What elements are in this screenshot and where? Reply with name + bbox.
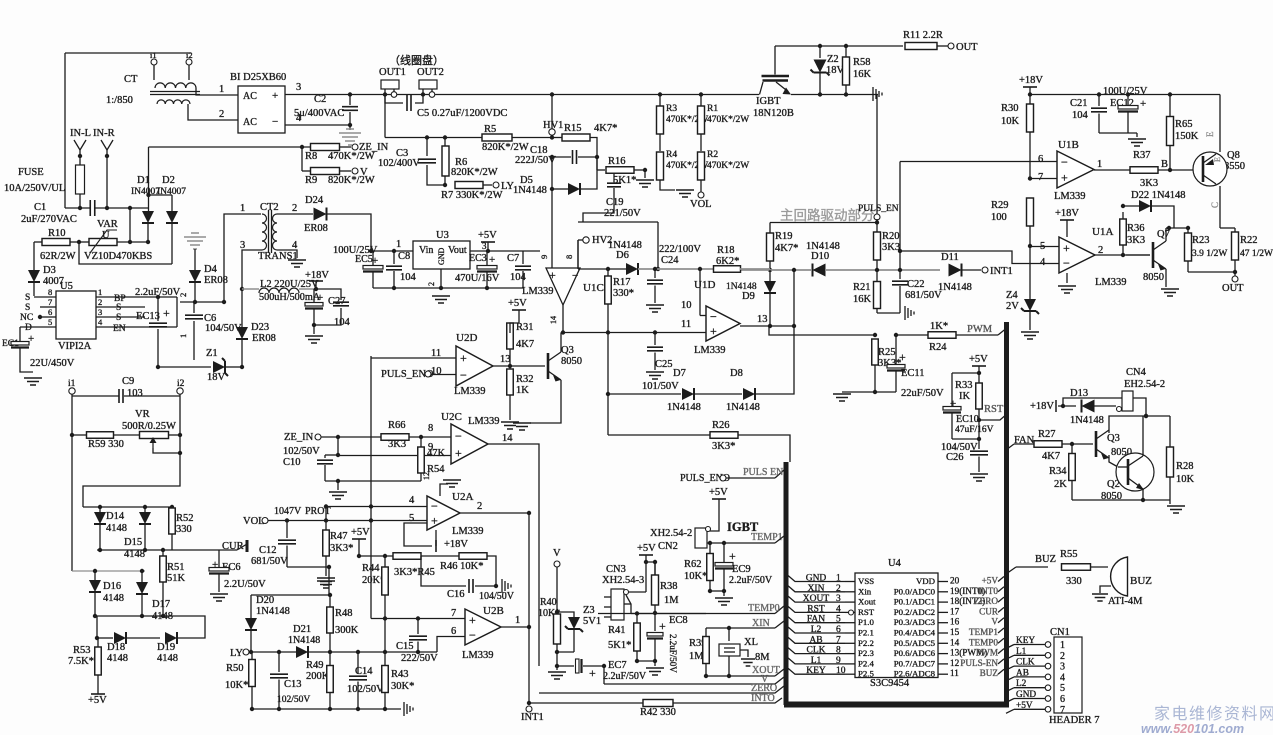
wire R5 row bbox=[385, 137, 552, 139]
svg-text:13: 13 bbox=[500, 354, 511, 365]
svg-text:10K: 10K bbox=[1001, 116, 1020, 127]
svg-text:D22 1N4148: D22 1N4148 bbox=[1131, 190, 1186, 201]
terminal OUT top bbox=[937, 45, 948, 47]
svg-text:104: 104 bbox=[510, 272, 527, 283]
svg-text:Vout: Vout bbox=[448, 245, 467, 256]
svg-text:R25: R25 bbox=[878, 347, 896, 358]
svg-text:XIN: XIN bbox=[808, 584, 825, 594]
svg-text:R65: R65 bbox=[1175, 119, 1193, 130]
wire U5 pin7 bbox=[40, 306, 56, 308]
wire CN1 pin4 AB bbox=[1006, 677, 1014, 681]
svg-text:+: + bbox=[28, 333, 34, 345]
ground earth near C2 bbox=[184, 233, 206, 249]
svg-text:2: 2 bbox=[219, 109, 224, 120]
ground C2 bbox=[349, 125, 351, 130]
svg-text:Q8: Q8 bbox=[1227, 150, 1240, 161]
svg-text:C5 0.27uF/1200VDC: C5 0.27uF/1200VDC bbox=[417, 108, 507, 119]
ground R4 bbox=[676, 190, 694, 197]
svg-text:2.2uF/50V: 2.2uF/50V bbox=[135, 287, 181, 298]
svg-text:B: B bbox=[1161, 159, 1168, 170]
wire Q2 base bbox=[1118, 466, 1128, 468]
svg-text:Q3: Q3 bbox=[1107, 433, 1120, 444]
wire HV1 col down bbox=[551, 189, 553, 268]
ground R25 bbox=[833, 394, 851, 401]
svg-text:9: 9 bbox=[539, 255, 549, 259]
svg-text:P2.3: P2.3 bbox=[858, 648, 874, 658]
svg-text:R58: R58 bbox=[853, 57, 871, 68]
svg-text:1M: 1M bbox=[664, 595, 679, 606]
svg-text:1N4148: 1N4148 bbox=[667, 402, 701, 413]
svg-text:500uH/500mA: 500uH/500mA bbox=[259, 292, 321, 303]
svg-text:3K3*: 3K3* bbox=[330, 543, 353, 554]
wire U1B out bbox=[1094, 169, 1130, 171]
svg-text:LM339: LM339 bbox=[1095, 277, 1127, 288]
wire BP-EN tie bbox=[176, 297, 178, 327]
wire +300V top bus bbox=[285, 94, 759, 96]
svg-text:INTO: INTO bbox=[751, 693, 775, 704]
svg-text:−: − bbox=[455, 429, 462, 443]
svg-text:1N4148: 1N4148 bbox=[1070, 415, 1104, 426]
svg-text:330: 330 bbox=[1066, 576, 1082, 587]
svg-text:C8: C8 bbox=[398, 251, 410, 262]
wire buzzer gnd bbox=[1100, 586, 1111, 593]
svg-text:16K: 16K bbox=[853, 69, 872, 80]
svg-text:10K: 10K bbox=[1176, 474, 1195, 485]
svg-text:2.2uF/50V: 2.2uF/50V bbox=[603, 671, 647, 682]
ground C24 bbox=[646, 305, 664, 312]
svg-text:−: − bbox=[1063, 256, 1070, 270]
svg-text:P2.1: P2.1 bbox=[858, 628, 874, 638]
bus MCU right thick bbox=[1004, 322, 1009, 704]
svg-text:XIN: XIN bbox=[752, 618, 770, 629]
svg-text:104: 104 bbox=[334, 317, 351, 328]
svg-text:5: 5 bbox=[1060, 683, 1065, 694]
svg-text:8: 8 bbox=[428, 423, 433, 434]
wire RST slant bbox=[979, 413, 1008, 420]
svg-text:R59 330: R59 330 bbox=[88, 439, 124, 450]
wire divider low bbox=[71, 435, 73, 571]
svg-text:R16: R16 bbox=[608, 156, 626, 167]
svg-text:XOUT: XOUT bbox=[803, 594, 830, 604]
wire U5 EN row bbox=[96, 326, 177, 328]
svg-text:XH2.54-3: XH2.54-3 bbox=[602, 575, 644, 586]
svg-text:GND: GND bbox=[1016, 690, 1036, 700]
svg-text:LM339: LM339 bbox=[452, 526, 484, 537]
svg-text:1: 1 bbox=[836, 574, 841, 584]
svg-text:4K7: 4K7 bbox=[1042, 451, 1060, 462]
svg-text:2: 2 bbox=[427, 282, 436, 286]
svg-text:8050: 8050 bbox=[561, 356, 582, 367]
svg-text:7: 7 bbox=[451, 608, 456, 619]
svg-text:P0.5/ADC5: P0.5/ADC5 bbox=[894, 638, 936, 648]
svg-text:10K*: 10K* bbox=[684, 571, 707, 582]
svg-text:RST: RST bbox=[984, 404, 1004, 415]
svg-text:1: 1 bbox=[396, 239, 401, 250]
svg-text:EC3: EC3 bbox=[469, 253, 487, 264]
svg-text:R22: R22 bbox=[1240, 235, 1258, 246]
wire collector row bbox=[775, 45, 903, 47]
svg-text:9: 9 bbox=[836, 656, 841, 666]
svg-text:3: 3 bbox=[836, 594, 841, 604]
wire U5 pin6 bbox=[40, 316, 56, 318]
svg-text:1M: 1M bbox=[689, 651, 704, 662]
svg-text:3K3: 3K3 bbox=[1127, 235, 1145, 246]
wire CN1 pin2 L1 bbox=[1006, 655, 1014, 659]
resistor R42 330 bbox=[643, 700, 673, 707]
wire U1B in7 bbox=[1030, 178, 1057, 180]
svg-text:4148: 4148 bbox=[124, 549, 145, 560]
svg-text:R15: R15 bbox=[564, 123, 582, 134]
svg-text:−: − bbox=[1061, 155, 1068, 169]
svg-text:L2: L2 bbox=[811, 625, 822, 635]
svg-text:−: − bbox=[460, 368, 467, 382]
wire CN1 pin7 +5V bbox=[1006, 709, 1014, 713]
svg-text:+5V: +5V bbox=[88, 695, 107, 706]
svg-text:3K3*R45: 3K3*R45 bbox=[394, 567, 435, 578]
wire D10 junction row bbox=[825, 269, 940, 271]
svg-text:D14: D14 bbox=[106, 511, 125, 522]
node HV1 bbox=[549, 129, 555, 135]
wire Q3 emitter bbox=[530, 380, 561, 423]
svg-text:5K1*: 5K1* bbox=[613, 175, 636, 186]
wire coil tap down bbox=[384, 95, 386, 138]
wire EC9 gnd row bbox=[710, 590, 724, 592]
svg-text:10: 10 bbox=[836, 666, 846, 676]
svg-text:3K3*: 3K3* bbox=[712, 441, 735, 452]
svg-text:5V1: 5V1 bbox=[583, 616, 601, 627]
svg-text:820K*/2W: 820K*/2W bbox=[482, 142, 529, 153]
ground EC4 bbox=[313, 325, 315, 334]
svg-text:Q3: Q3 bbox=[561, 345, 574, 356]
svg-text:R37: R37 bbox=[1133, 150, 1151, 161]
svg-text:R46 10K*: R46 10K* bbox=[440, 561, 483, 572]
svg-text:−: − bbox=[710, 310, 717, 324]
regulator U3 bbox=[413, 241, 470, 269]
wire U5 S rows bbox=[96, 306, 145, 308]
svg-text:47K: 47K bbox=[427, 448, 446, 459]
svg-text:470K*/2W: 470K*/2W bbox=[707, 115, 749, 125]
wire U5 BP row bbox=[96, 296, 177, 298]
svg-text:P1.0: P1.0 bbox=[858, 617, 874, 627]
svg-text:S: S bbox=[25, 303, 30, 313]
svg-text:330: 330 bbox=[176, 524, 192, 535]
svg-text:D23: D23 bbox=[251, 322, 269, 333]
wire R48 top row bbox=[251, 594, 330, 596]
svg-text:Z2: Z2 bbox=[827, 54, 839, 65]
wire U4 pin2 XIN bbox=[788, 586, 845, 592]
svg-text:+: + bbox=[163, 306, 170, 320]
svg-text:3: 3 bbox=[1060, 662, 1065, 673]
svg-text:C9: C9 bbox=[122, 376, 134, 387]
svg-text:+: + bbox=[899, 350, 906, 364]
svg-text:6: 6 bbox=[1038, 154, 1043, 165]
svg-text:+5V: +5V bbox=[508, 298, 527, 309]
svg-text:XL: XL bbox=[744, 637, 758, 648]
wire CN3 link bbox=[626, 595, 631, 613]
wire U2A out bbox=[460, 512, 529, 514]
svg-text:8M: 8M bbox=[755, 652, 770, 663]
wire Q2 collector bbox=[1142, 416, 1144, 456]
wire Q2 emitter bbox=[1142, 489, 1144, 500]
wire VR wiper bbox=[153, 448, 180, 453]
wire U5 pin5 bbox=[20, 326, 56, 328]
terminal LY bbox=[493, 182, 499, 188]
svg-text:102/50V: 102/50V bbox=[283, 446, 320, 457]
svg-text:XH2.54-2: XH2.54-2 bbox=[650, 528, 692, 539]
svg-text:7: 7 bbox=[1060, 705, 1065, 716]
svg-text:470K*/2W: 470K*/2W bbox=[707, 161, 749, 171]
svg-text:P2.6/ADC8: P2.6/ADC8 bbox=[894, 669, 936, 679]
svg-text:14: 14 bbox=[950, 637, 960, 647]
svg-text:+5V: +5V bbox=[351, 527, 370, 538]
wire U1C out bbox=[562, 305, 564, 333]
svg-text:−: − bbox=[572, 270, 578, 282]
wire Q7 collector bbox=[1165, 228, 1167, 241]
svg-text:104: 104 bbox=[400, 272, 417, 283]
svg-text:PULS EN: PULS EN bbox=[743, 467, 783, 478]
capacitor C5 0.27uF/1200VDC bbox=[385, 95, 403, 104]
wire R38 row bbox=[631, 613, 706, 615]
svg-text:LM339: LM339 bbox=[694, 345, 726, 356]
svg-text:Xout: Xout bbox=[858, 597, 876, 607]
wire Q7 base bbox=[1126, 254, 1150, 256]
ground Q7 bbox=[1161, 289, 1179, 296]
wire D24 to EC5 bbox=[327, 214, 371, 251]
svg-text:LY: LY bbox=[230, 648, 243, 659]
svg-text:EC10: EC10 bbox=[956, 414, 979, 425]
svg-text:102/50V: 102/50V bbox=[277, 695, 310, 705]
wire U4 pin1 GND bbox=[788, 576, 845, 582]
svg-text:KEY: KEY bbox=[1016, 636, 1035, 646]
svg-text:100: 100 bbox=[991, 212, 1007, 223]
wire clamp loop bbox=[79, 242, 172, 264]
svg-text:7: 7 bbox=[48, 297, 52, 307]
wire +18V rail bbox=[1029, 87, 1031, 95]
svg-text:2: 2 bbox=[292, 203, 297, 214]
svg-text:P0.2/ADC2: P0.2/ADC2 bbox=[894, 607, 935, 617]
svg-text:GND: GND bbox=[806, 574, 827, 584]
svg-text:2V: 2V bbox=[1006, 301, 1019, 312]
svg-text:D17: D17 bbox=[152, 599, 170, 610]
svg-text:102/50V: 102/50V bbox=[347, 684, 384, 695]
wire U2C out bbox=[488, 444, 539, 666]
wire U2B out bbox=[501, 626, 529, 628]
svg-text:TEMP0: TEMP0 bbox=[748, 603, 780, 614]
svg-text:47uF/16V: 47uF/16V bbox=[955, 425, 994, 435]
svg-text:4K7*: 4K7* bbox=[594, 123, 617, 134]
svg-text:2: 2 bbox=[178, 293, 188, 297]
ground R16 bbox=[644, 170, 646, 178]
wire drive top row bbox=[876, 95, 878, 215]
svg-text:LM339: LM339 bbox=[522, 286, 554, 297]
svg-text:4K7: 4K7 bbox=[516, 339, 534, 350]
terminal i1 bottom bbox=[69, 388, 75, 394]
svg-text:102/400V: 102/400V bbox=[378, 158, 420, 169]
svg-text:家电维修资料网: 家电维修资料网 bbox=[1154, 705, 1273, 723]
svg-text:15: 15 bbox=[950, 627, 960, 637]
svg-text:1K: 1K bbox=[516, 385, 529, 396]
svg-text:U1C: U1C bbox=[583, 282, 604, 294]
wire CT2 pin4 bbox=[277, 250, 297, 258]
svg-text:R50: R50 bbox=[226, 663, 244, 674]
svg-text:+: + bbox=[589, 666, 596, 680]
svg-text:C15: C15 bbox=[396, 641, 414, 652]
svg-text:CLK: CLK bbox=[807, 646, 826, 656]
svg-text:1: 1 bbox=[1097, 159, 1102, 170]
svg-text:+18V: +18V bbox=[444, 539, 468, 550]
svg-text:BUZ: BUZ bbox=[980, 668, 999, 678]
svg-text:i2: i2 bbox=[186, 50, 193, 60]
wire VAR column bbox=[129, 208, 131, 242]
svg-text:+5V: +5V bbox=[969, 354, 988, 365]
svg-text:P0.7/ADC7: P0.7/ADC7 bbox=[894, 658, 936, 668]
svg-text:C19: C19 bbox=[606, 197, 624, 208]
svg-text:14: 14 bbox=[549, 316, 558, 324]
svg-text:R8: R8 bbox=[305, 151, 317, 162]
svg-text:1047V: 1047V bbox=[274, 506, 302, 517]
wire PWM row bbox=[769, 326, 875, 335]
svg-text:17: 17 bbox=[950, 606, 960, 616]
svg-text:3K3: 3K3 bbox=[1140, 178, 1158, 189]
svg-text:INT0: INT0 bbox=[978, 586, 998, 596]
svg-text:IGBT: IGBT bbox=[756, 96, 781, 107]
svg-text:C21: C21 bbox=[1070, 98, 1088, 109]
svg-text:D24: D24 bbox=[305, 195, 324, 206]
svg-text:NC: NC bbox=[20, 313, 33, 323]
ground CT2 pin4 bbox=[288, 260, 306, 267]
wire CN3 +5V link bbox=[629, 591, 646, 593]
svg-text:P2.4: P2.4 bbox=[858, 658, 874, 668]
wire PWM slant bbox=[998, 327, 1008, 335]
svg-text:3: 3 bbox=[98, 307, 102, 317]
svg-text:U3: U3 bbox=[436, 230, 449, 241]
svg-text:7.5K*: 7.5K* bbox=[68, 656, 94, 667]
svg-text:LM339: LM339 bbox=[454, 386, 486, 397]
svg-text:R42 330: R42 330 bbox=[640, 707, 676, 718]
svg-text:4: 4 bbox=[296, 113, 302, 124]
terminal VOL bbox=[698, 192, 704, 198]
svg-text:VZ10D470KBS: VZ10D470KBS bbox=[84, 251, 152, 262]
wire RST pin4 circle bbox=[849, 610, 854, 615]
svg-text:1: 1 bbox=[515, 615, 520, 626]
svg-text:V: V bbox=[360, 167, 368, 178]
op-amp U1C LM339 bbox=[546, 268, 580, 305]
svg-text:CN1: CN1 bbox=[1050, 627, 1070, 638]
svg-text:R24: R24 bbox=[929, 342, 947, 353]
svg-text:RST: RST bbox=[807, 604, 825, 614]
svg-text:D: D bbox=[25, 323, 32, 333]
svg-text:P2.2: P2.2 bbox=[858, 638, 874, 648]
ground EC6 bbox=[210, 594, 228, 601]
wire U4 pin5 FAN bbox=[788, 617, 845, 623]
svg-text:1: 1 bbox=[219, 84, 224, 95]
wire PULS_EN row bbox=[726, 477, 775, 479]
wire IGBT collector bbox=[774, 46, 776, 75]
svg-text:4K7*: 4K7* bbox=[775, 243, 798, 254]
svg-text:+: + bbox=[431, 513, 438, 527]
wire ZE_IN row bbox=[321, 436, 381, 438]
svg-text:100U/25V: 100U/25V bbox=[1103, 86, 1148, 97]
svg-text:R27: R27 bbox=[1038, 429, 1056, 440]
svg-text:EC5: EC5 bbox=[355, 254, 373, 265]
svg-text:18V: 18V bbox=[207, 372, 226, 383]
svg-text:222/50V: 222/50V bbox=[401, 653, 438, 664]
terminal OUT right bbox=[1232, 276, 1238, 282]
svg-text:AC: AC bbox=[243, 117, 257, 128]
wire CT to BI pin1 bbox=[196, 88, 238, 95]
wire emitter row bbox=[1072, 499, 1170, 501]
svg-text:1: 1 bbox=[178, 334, 188, 338]
svg-text:R26: R26 bbox=[712, 420, 730, 431]
svg-text:+: + bbox=[1063, 241, 1070, 255]
svg-text:C12: C12 bbox=[259, 545, 277, 556]
svg-text:+18V: +18V bbox=[305, 270, 329, 281]
svg-text:C13: C13 bbox=[284, 679, 302, 690]
wire U3 out row bbox=[470, 250, 540, 252]
svg-text:D10: D10 bbox=[811, 251, 829, 262]
wire U1A out bbox=[1094, 254, 1150, 256]
svg-text:C22: C22 bbox=[907, 279, 925, 290]
svg-text:IN-R: IN-R bbox=[93, 128, 115, 139]
svg-text:2.2uF/50V: 2.2uF/50V bbox=[668, 634, 678, 673]
ground U1A bbox=[1066, 273, 1068, 283]
svg-text:R52: R52 bbox=[176, 513, 194, 524]
svg-text:330*: 330* bbox=[613, 288, 634, 299]
wire VR to divider bbox=[83, 435, 180, 507]
svg-text:500R/0.25W: 500R/0.25W bbox=[122, 421, 176, 432]
wire U4 pin8 CLK bbox=[788, 648, 845, 654]
ground EC8 bbox=[654, 661, 656, 666]
svg-text:VIPI2A: VIPI2A bbox=[58, 341, 92, 352]
svg-text:R29: R29 bbox=[991, 200, 1009, 211]
svg-text:6: 6 bbox=[1060, 694, 1065, 705]
wire U1D in10 bbox=[699, 269, 701, 316]
svg-text:4148: 4148 bbox=[103, 593, 124, 604]
svg-text:470U/16V: 470U/16V bbox=[455, 273, 500, 284]
svg-text:U2B: U2B bbox=[483, 605, 504, 617]
svg-text:2: 2 bbox=[98, 297, 102, 307]
svg-text:+: + bbox=[489, 254, 495, 266]
svg-text:6: 6 bbox=[836, 625, 841, 635]
svg-text:Z3: Z3 bbox=[583, 605, 595, 616]
svg-text:3.9 1/2W: 3.9 1/2W bbox=[1192, 249, 1227, 259]
svg-text:2: 2 bbox=[1060, 651, 1065, 662]
svg-text:D7: D7 bbox=[673, 368, 686, 379]
wire IN-R down bbox=[106, 156, 108, 208]
ground R28 bbox=[1169, 500, 1171, 504]
ground R32 bbox=[501, 422, 519, 429]
wire PROT row bbox=[287, 520, 427, 522]
wire Q7 emitter bbox=[1165, 269, 1167, 287]
svg-text:ZERO: ZERO bbox=[974, 596, 998, 606]
svg-text:681/50V: 681/50V bbox=[905, 290, 942, 301]
svg-text:R9: R9 bbox=[305, 175, 317, 186]
svg-text:D20: D20 bbox=[256, 595, 274, 606]
svg-text:104/50V: 104/50V bbox=[479, 591, 515, 602]
svg-text:+: + bbox=[710, 324, 717, 338]
wire top loop bbox=[65, 52, 191, 54]
svg-text:11: 11 bbox=[950, 668, 959, 678]
svg-text:ATI-4M: ATI-4M bbox=[1108, 596, 1143, 607]
svg-text:VDD: VDD bbox=[916, 576, 935, 586]
svg-text:R21: R21 bbox=[853, 282, 871, 293]
svg-text:−: − bbox=[272, 116, 278, 128]
wire HV2 link bbox=[578, 221, 658, 223]
svg-text:8: 8 bbox=[836, 646, 841, 656]
svg-text:R20: R20 bbox=[882, 231, 900, 242]
svg-text:FAN: FAN bbox=[807, 615, 825, 625]
ground U3 bbox=[440, 269, 442, 288]
